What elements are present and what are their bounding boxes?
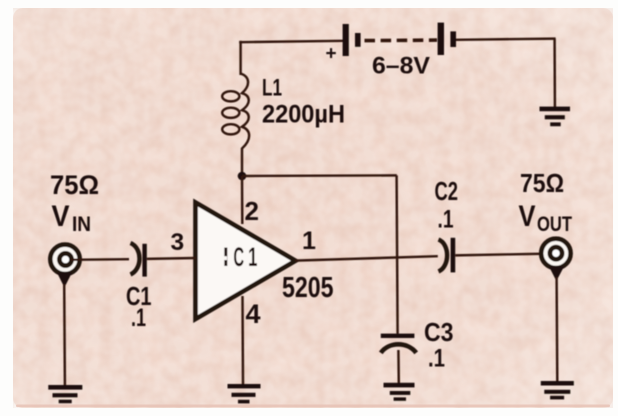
connector J1 V_IN (phono jack) xyxy=(50,245,79,288)
battery B1 plate (short, left cell) xyxy=(355,33,361,47)
ground (C3) xyxy=(384,383,415,401)
svg-text:OUT: OUT xyxy=(537,213,572,236)
wire: vertical branch down to C3 / output crossing xyxy=(397,175,398,333)
svg-text:2200µH: 2200µH xyxy=(262,101,345,129)
wire: V_OUT jack down to ground xyxy=(555,277,558,382)
capacitor C1 xyxy=(131,243,147,277)
svg-text:6–8V: 6–8V xyxy=(372,53,430,80)
svg-text:.1: .1 xyxy=(428,345,445,373)
svg-text:75Ω: 75Ω xyxy=(50,170,99,200)
wire: IC1 pin 1 output to C2 xyxy=(295,256,438,260)
wire: pin 2 lead from junction into IC1 xyxy=(241,176,244,224)
svg-text:IN: IN xyxy=(72,213,91,236)
wire: C2 to V_OUT jack xyxy=(455,254,549,256)
wire: pin 4 lead down to ground xyxy=(241,296,244,385)
wire: V_IN jack down to ground xyxy=(63,284,66,386)
svg-text:C3: C3 xyxy=(424,317,454,347)
wire: left vertical from top rail corner down to coil xyxy=(239,41,241,75)
svg-text:1: 1 xyxy=(248,242,257,272)
wire: V_IN to C1 xyxy=(71,258,129,261)
ground (IC1 pin 4) xyxy=(228,384,261,403)
ground (V_IN) xyxy=(48,385,82,403)
ground (top right, battery return) xyxy=(540,107,571,127)
svg-text:3: 3 xyxy=(171,229,185,256)
svg-text:75Ω: 75Ω xyxy=(520,168,564,198)
wire: right vertical down to top-right ground xyxy=(553,39,556,108)
battery B1 plate (short, right cell) xyxy=(450,31,456,47)
svg-text:2: 2 xyxy=(245,196,259,226)
svg-text:5205: 5205 xyxy=(282,272,334,304)
svg-text:4: 4 xyxy=(246,299,261,329)
svg-text:+: + xyxy=(326,44,337,65)
op-amp IC1 (triangle) xyxy=(196,203,296,320)
IC1 reference label xyxy=(223,241,258,273)
svg-text:V: V xyxy=(52,200,70,233)
battery B1 plate (long, right cell) xyxy=(438,23,444,55)
inductor L1 coil xyxy=(222,74,249,177)
svg-text:C2: C2 xyxy=(435,176,459,206)
node: junction dot of L1 / pin2 / feedback rail xyxy=(238,172,247,181)
svg-text:C: C xyxy=(233,241,244,272)
wire: top rail right segment (battery - to right corner) xyxy=(456,39,556,40)
svg-text:V: V xyxy=(519,200,536,233)
page bottom edge shadow xyxy=(16,405,610,408)
wire: C1 to IC1 pin 3 xyxy=(147,257,196,260)
ground (V_OUT) xyxy=(541,381,574,399)
capacitor C3 xyxy=(381,334,416,353)
wire: dashed link between battery cells xyxy=(365,38,438,42)
svg-text:.1: .1 xyxy=(131,304,146,332)
svg-text:1: 1 xyxy=(302,227,316,255)
battery B1 plate (long, left cell) xyxy=(343,24,349,56)
wire: feedback rail from junction to C3 branch xyxy=(242,174,397,177)
capacitor C2 xyxy=(439,238,456,273)
connector J2 V_OUT (phono jack) xyxy=(541,239,570,281)
svg-text:.1: .1 xyxy=(438,206,454,234)
svg-text:L1: L1 xyxy=(262,75,282,102)
wire: top rail left segment (L1 top to battery +) xyxy=(239,41,344,42)
wire: C3 to ground xyxy=(397,350,400,384)
